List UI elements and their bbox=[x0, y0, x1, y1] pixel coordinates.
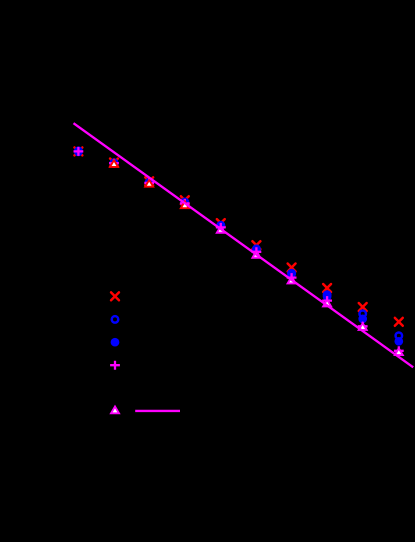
legend magenta triangle bbox=[111, 407, 119, 414]
legend red X bbox=[111, 292, 119, 300]
data cluster 8 bbox=[323, 284, 331, 292]
data cluster 4 bbox=[181, 196, 189, 204]
data cluster 6 bbox=[252, 241, 260, 249]
legend magenta plus bbox=[110, 361, 120, 370]
legend blue open circle bbox=[112, 316, 119, 323]
reference line bbox=[74, 123, 414, 367]
data cluster 7 bbox=[288, 264, 296, 272]
legend blue filled circle bbox=[111, 338, 120, 347]
data cluster 10 bbox=[395, 318, 403, 326]
data cluster 3 bbox=[145, 177, 153, 185]
data cluster 2 bbox=[110, 159, 118, 167]
data cluster 5 bbox=[217, 219, 225, 227]
data cluster 9 bbox=[359, 303, 367, 311]
legend line sample bbox=[135, 410, 180, 412]
data cluster 1 bbox=[74, 147, 82, 155]
